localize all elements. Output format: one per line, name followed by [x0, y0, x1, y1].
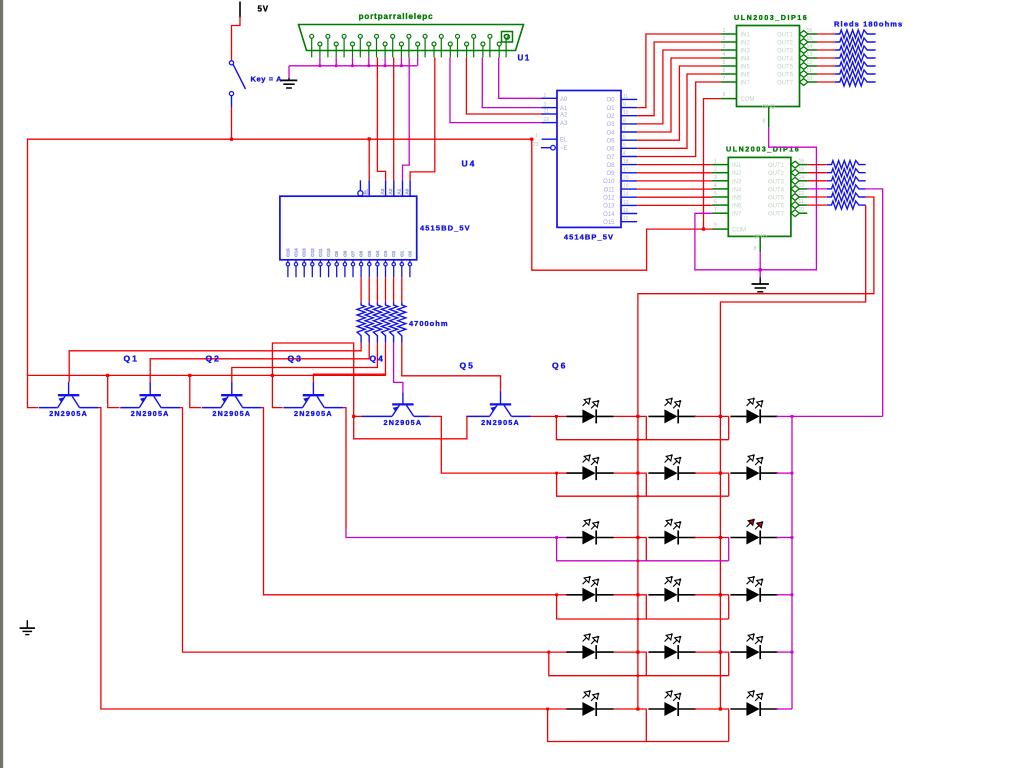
svg-text:4700ohm: 4700ohm: [409, 319, 449, 328]
svg-text:O6: O6: [359, 250, 364, 257]
wire O13 to ULN2 IN6: [637, 204, 712, 206]
IC U2 pin IN6 lead: [721, 73, 737, 75]
svg-text:23: 23: [533, 142, 539, 148]
svg-text:A2: A2: [560, 113, 568, 119]
transistor Q2 2N2905A: [120, 382, 180, 408]
svg-text:7: 7: [623, 127, 626, 133]
junction row4 jog: [555, 593, 558, 596]
svg-text:Q4: Q4: [370, 354, 385, 364]
connector U1 pin 2: [326, 34, 330, 57]
svg-text:OUT2: OUT2: [777, 41, 794, 47]
wire row4 return: [557, 595, 729, 619]
resistor Rled6 180ohm: [835, 70, 876, 78]
LED row2 col2: [648, 454, 695, 480]
svg-text:IN6: IN6: [732, 204, 742, 210]
IC U2 pin OUT3 lead: [808, 49, 817, 51]
resistor Rled4 180ohm: [835, 54, 876, 62]
wire row5 LED3 to magenta bus: [776, 651, 792, 653]
junction row4 colA: [636, 593, 639, 596]
wire row4 feed to LED: [557, 594, 567, 596]
svg-text:10: 10: [623, 110, 629, 116]
IC U3 pin IN3 lead: [713, 180, 729, 182]
wire U4 pin to R3: [376, 277, 378, 302]
IC U4 output pin O6: [359, 260, 362, 277]
IC U2 pin IN2 lead: [721, 41, 737, 43]
IC U4 output pin O1: [400, 260, 403, 277]
wire ULN1 COM net: [704, 99, 722, 230]
svg-text:IN4: IN4: [741, 57, 751, 63]
wire switch to rail: [231, 107, 233, 139]
IC U4 output pin O8: [343, 260, 346, 277]
svg-text:U1: U1: [518, 54, 531, 63]
svg-text:O3: O3: [606, 122, 615, 128]
junction row1 return colA: [637, 439, 639, 441]
IC U3 output bubble OUT6: [791, 202, 799, 209]
svg-text:IN7: IN7: [741, 81, 751, 87]
svg-text:O10: O10: [603, 179, 615, 185]
IC U3 pin OUT6 lead: [799, 204, 807, 206]
svg-text:O14: O14: [294, 248, 299, 257]
svg-text:14: 14: [799, 175, 805, 181]
IC U3 pin IN5 lead: [713, 196, 729, 198]
svg-text:O2: O2: [391, 250, 396, 257]
wire pin14 to ground bus: [319, 57, 321, 65]
wire row2 LED2-LED3: [695, 472, 729, 474]
IC U3 pin OUT1 lead: [799, 164, 807, 166]
svg-text:11: 11: [807, 68, 812, 74]
IC ULN2003 U2 body: [737, 26, 800, 107]
transistor Q3 2N2905A: [202, 382, 262, 408]
svg-text:OUT1: OUT1: [777, 33, 794, 39]
wire pin18 to ground bus: [384, 57, 386, 65]
wire row5 return: [549, 652, 729, 676]
svg-text:4: 4: [714, 183, 717, 189]
resistor Rled2-1 180ohm: [827, 161, 866, 169]
wire pin5 to 4515 A3: [377, 57, 385, 180]
IC U2 pin COM lead: [721, 98, 737, 100]
svg-text:15: 15: [799, 167, 805, 173]
power 5V stub: [239, 2, 241, 18]
IC 4514BP_5V body: [557, 91, 621, 228]
svg-text:4514BP_5V: 4514BP_5V: [564, 233, 614, 242]
svg-text:O11: O11: [318, 248, 323, 257]
IC 4514 pin O4 lead: [621, 131, 637, 133]
svg-text:O0: O0: [606, 98, 615, 104]
svg-text:OUT2: OUT2: [768, 171, 785, 177]
wire U2 OUT6 to resistor: [817, 73, 835, 75]
wire U2 OUT3 to resistor: [817, 49, 835, 51]
IC 4514 pin O5 lead: [621, 139, 637, 141]
IC U2 output bubble OUT5: [800, 63, 808, 70]
resistor Rled2-3 180ohm: [827, 177, 866, 185]
LED row4 col2: [648, 576, 695, 602]
IC 4514 pin O14 lead: [621, 213, 637, 215]
junction row2 colB: [719, 472, 722, 475]
resistor network 4700ohm R3: [373, 302, 381, 342]
svg-text:O8: O8: [342, 250, 347, 257]
svg-text:U4: U4: [462, 159, 477, 169]
svg-text:OUT7: OUT7: [768, 212, 785, 218]
resistor network 4700ohm R6: [398, 302, 406, 342]
svg-text:OUT7: OUT7: [777, 81, 794, 87]
IC U2 pin OUT4 lead: [808, 57, 817, 59]
svg-text:O2: O2: [606, 114, 615, 120]
resistor network 4700ohm R4: [382, 302, 390, 342]
junction row5 jog: [547, 651, 550, 654]
IC U4 output pin O7: [351, 260, 354, 277]
IC U2 pin OUT6 lead: [808, 73, 817, 75]
wire row6 LED2-LED3: [695, 708, 729, 710]
resistor network 4700ohm R5: [390, 302, 398, 342]
IC U4 output pin O2: [392, 260, 395, 277]
svg-text:12: 12: [807, 60, 813, 66]
IC U4 output pin O11: [319, 260, 322, 277]
svg-text:8: 8: [754, 246, 757, 252]
connector U1 pin 16: [351, 42, 355, 57]
svg-text:O1: O1: [399, 250, 404, 257]
IC U4 top pin A1: [402, 180, 404, 196]
wire U3 GND stub magenta: [759, 252, 761, 277]
junction pin16 bus: [351, 65, 354, 68]
connector U1 pin 6: [391, 34, 395, 57]
svg-text:14: 14: [623, 192, 629, 198]
junction COM net: [702, 228, 705, 231]
IC U4 output labels O15-O0: [285, 248, 412, 257]
svg-text:11: 11: [623, 94, 628, 100]
junction pin17 bus: [368, 65, 371, 68]
svg-text:O9: O9: [334, 250, 339, 257]
wire Q4 emitter feed: [272, 375, 282, 407]
svg-text:8: 8: [763, 119, 766, 125]
wire ground bus magenta: [289, 65, 417, 67]
connector U1 portparrallelepc body: [299, 25, 524, 51]
IC U3 pin IN6 lead: [713, 204, 729, 206]
svg-text:8: 8: [623, 118, 626, 124]
LED row5 col2: [648, 633, 695, 659]
wire row2 LED1-LED2: [614, 472, 647, 474]
wire OUT6 to column B: [720, 205, 865, 709]
wire U3 OUT3 to resistor: [807, 180, 827, 182]
svg-text:4: 4: [723, 52, 726, 58]
svg-text:6: 6: [623, 135, 626, 141]
LED row1 col2: [648, 398, 695, 424]
junction row6 jog: [546, 708, 549, 711]
svg-text:O5: O5: [606, 139, 615, 145]
svg-text:OUT6: OUT6: [768, 204, 785, 210]
transistor Q5 2N2905A: [362, 392, 430, 416]
wire R2 to Q2 base: [150, 343, 369, 382]
IC U2 pin IN5 lead: [721, 65, 737, 67]
wire rail drop to 4515: [368, 139, 370, 180]
svg-text:O15: O15: [285, 248, 290, 257]
resistor Rled2 180ohm: [835, 38, 876, 46]
LED row2 col1: [566, 454, 613, 480]
LED row3 col1: [566, 519, 613, 545]
connector U1 pin 25: [497, 42, 501, 57]
wire OUT5 to column A: [638, 197, 874, 709]
IC U3 pin IN4 lead: [713, 188, 729, 190]
junction row5 magenta bus: [791, 651, 794, 654]
connector U1 pin 14: [318, 42, 322, 57]
svg-text:4: 4: [623, 151, 626, 157]
svg-text:O0: O0: [407, 250, 412, 257]
wire row6 feed to LED: [548, 708, 567, 710]
wire pin23 to 4514 A2: [466, 57, 543, 114]
junction pin19 bus: [400, 65, 403, 68]
wire EL net to COM2: [532, 139, 713, 270]
wire U2 OUT2 to resistor: [817, 41, 835, 43]
wire R1 to Q1 base: [69, 343, 361, 382]
svg-text:A0: A0: [560, 97, 568, 103]
wire pin25 to 4514 A0: [499, 57, 543, 98]
svg-text:A2: A2: [388, 188, 393, 194]
svg-text:IN1: IN1: [732, 163, 742, 169]
svg-text:OUT4: OUT4: [768, 187, 785, 193]
resistor Rled5 180ohm: [835, 62, 876, 70]
connector U1 pin 21: [432, 42, 436, 57]
resistor Rled7 180ohm: [835, 78, 876, 86]
svg-text:ULN2003_DIP16: ULN2003_DIP16: [734, 13, 808, 22]
IC U4 output pin O15: [286, 260, 289, 277]
junction rail switch: [230, 138, 233, 141]
IC ULN2003 U3 body: [728, 157, 791, 236]
svg-text:16: 16: [623, 208, 629, 214]
LED row1 col1: [566, 398, 613, 424]
wire row5 LED1-LED2: [614, 651, 647, 653]
connector U1 indicator square: [502, 32, 513, 43]
wire row6 LED3 to magenta bus: [776, 708, 792, 710]
wire Q6 collector to row1: [531, 415, 567, 417]
IC 4514 pin A0 lead: [542, 97, 557, 99]
wire Q4 collector to row3 magenta: [346, 529, 557, 538]
svg-text:O14: O14: [603, 212, 615, 218]
svg-text:A1: A1: [397, 188, 402, 194]
svg-text:O6: O6: [606, 147, 615, 153]
svg-text:O13: O13: [603, 204, 615, 210]
svg-text:3: 3: [714, 175, 717, 181]
wire U4 pin to R5: [393, 277, 395, 302]
wire Q5 Q6 emitter feed riser: [272, 343, 362, 416]
wire U3 OUT2 to resistor: [807, 172, 827, 174]
wire row2 return: [557, 473, 729, 496]
svg-text:2N2905A: 2N2905A: [481, 418, 520, 427]
wire O11 to ULN2 IN4: [637, 188, 712, 190]
svg-text:5: 5: [623, 143, 626, 149]
svg-text:Q2: Q2: [206, 354, 221, 364]
wire OUT4 to LED row1 magenta: [866, 189, 883, 417]
resistor network 4700ohm R2: [365, 302, 373, 342]
IC U2 output bubble OUT2: [800, 39, 808, 46]
wire row3 return: [557, 538, 729, 561]
wire O9 to ULN2 IN2: [637, 172, 712, 174]
svg-text:2N2905A: 2N2905A: [294, 409, 333, 418]
junction Q5 feed: [352, 415, 355, 418]
IC U4 top pin labels: [364, 188, 410, 194]
svg-text:Rleds 180ohms: Rleds 180ohms: [834, 20, 903, 29]
IC U4 output pin O0: [408, 260, 411, 277]
wire bus to ground: [288, 66, 290, 78]
wire Q6 emitter feed: [354, 416, 467, 438]
wire row4 LED3 to magenta bus: [776, 594, 792, 596]
connector U1 pin 4: [358, 34, 362, 57]
junction row5 colA: [636, 651, 639, 654]
junction row1 magenta: [791, 415, 794, 418]
wire U2 OUT5 to resistor: [817, 65, 835, 67]
wire R3 to Q3 base: [232, 343, 378, 382]
junction row2 colA: [636, 472, 639, 475]
IC U2 output bubble OUT6: [800, 71, 808, 78]
resistor Rled2-5 180ohm: [827, 193, 866, 201]
junction rail 4515 pin: [368, 137, 371, 140]
junction row5 return colA: [637, 675, 639, 677]
wire pin21 to 4515 A0: [410, 57, 435, 180]
svg-text:OUT3: OUT3: [768, 179, 785, 185]
svg-text:COM: COM: [741, 97, 755, 103]
svg-text:OUT6: OUT6: [777, 73, 794, 79]
svg-text:6: 6: [723, 68, 726, 74]
wire Q3 collector to row4: [262, 408, 557, 595]
svg-text:O4: O4: [606, 130, 615, 136]
svg-text:OUT4: OUT4: [777, 57, 794, 63]
wire Q5 collector to row2: [429, 416, 556, 473]
svg-text:6: 6: [714, 199, 717, 205]
IC U2 pin IN4 lead: [721, 57, 737, 59]
IC U3 pin IN2 lead: [713, 172, 729, 174]
wire GND net magenta: [695, 127, 817, 270]
junction rail Q4 feed: [271, 374, 274, 377]
svg-text:O3: O3: [383, 250, 388, 257]
junction row4 colB: [719, 593, 722, 596]
svg-text:O7: O7: [351, 250, 356, 257]
svg-text:2N2905A: 2N2905A: [131, 409, 170, 418]
wire R5 to Q5 base magenta: [394, 343, 403, 393]
svg-text:10: 10: [799, 207, 805, 213]
junction row3 colB: [719, 536, 722, 539]
connector U1 pin 20: [416, 42, 420, 57]
IC 4514 pin O2 lead: [621, 115, 637, 117]
IC U4 inhibit pin: [358, 180, 363, 196]
junction row1 jog: [555, 415, 558, 418]
junction row1 colB: [719, 415, 722, 418]
wire U4 pin to R6: [401, 277, 403, 302]
resistor network 4700ohm R1: [357, 302, 365, 342]
wire Q3 emitter feed: [190, 375, 201, 407]
junction row6 colB: [719, 707, 722, 710]
LED row6 col3: [730, 690, 777, 716]
junction row3 jog: [555, 536, 558, 539]
svg-text:Key = A: Key = A: [251, 75, 283, 84]
svg-text:9: 9: [723, 92, 726, 98]
svg-text:9: 9: [714, 223, 717, 229]
IC U4 top pin A2: [393, 180, 395, 196]
svg-text:13: 13: [623, 200, 629, 206]
wire row1 right magenta: [792, 415, 883, 417]
transistor Q4 2N2905A: [283, 382, 343, 408]
IC 4514 pin notE lead: [541, 145, 555, 150]
IC U3 pin GND lead: [759, 236, 761, 252]
junction row4 magenta bus: [791, 593, 794, 596]
svg-text:12: 12: [799, 191, 805, 197]
svg-text:17: 17: [623, 167, 629, 173]
wire row1 return: [556, 416, 728, 439]
wire pin15 to ground bus: [335, 57, 337, 65]
svg-text:13: 13: [807, 52, 813, 58]
svg-text:16: 16: [807, 28, 813, 34]
svg-text:20: 20: [623, 175, 629, 181]
resistor Rled2-2 180ohm: [827, 169, 866, 177]
wire Q2 emitter feed: [108, 375, 120, 407]
IC U2 output bubble OUT7: [800, 79, 808, 86]
wire row6 return: [548, 709, 729, 742]
IC U3 output bubble OUT3: [791, 177, 799, 184]
svg-text:4515BD_5V: 4515BD_5V: [420, 224, 471, 233]
wire magenta LED bus: [791, 416, 793, 709]
IC U4 top pin A3: [385, 180, 387, 196]
IC U3 pin IN7 lead: [713, 212, 729, 214]
IC 4514 pin O3 lead: [621, 123, 637, 125]
left window border: [0, 0, 3, 768]
ground GND2: [752, 278, 769, 292]
IC 4514 pin O8 lead: [621, 164, 637, 166]
IC 4514 pin A3 lead: [542, 122, 557, 124]
IC U4 top pin A0: [409, 180, 411, 196]
connector U1 pin 7: [407, 34, 411, 57]
svg-text:O13: O13: [302, 248, 307, 257]
connector U1 pin 1: [310, 34, 314, 57]
IC U3 pin OUT4 lead: [799, 188, 807, 190]
svg-text:11: 11: [799, 199, 804, 205]
wire row5 LED2 anode drop: [645, 652, 647, 676]
wire U4 pin to R2: [368, 277, 370, 302]
resistor Rled3 180ohm: [835, 46, 876, 54]
wire pin20 drop: [417, 57, 419, 65]
svg-text:OUT5: OUT5: [777, 65, 794, 71]
svg-text:~E: ~E: [560, 146, 568, 152]
junction row3 magenta bus: [791, 536, 794, 539]
wire row4 LED2 anode drop: [645, 595, 647, 619]
IC U4 output pin O3: [384, 260, 387, 277]
resistor Rled2-6 180ohm: [827, 201, 866, 209]
wire row1 LED1-LED2: [614, 415, 647, 417]
junction row6 colA: [636, 707, 639, 710]
IC U3 output bubble OUT1: [791, 161, 799, 168]
svg-text:IN1: IN1: [741, 33, 751, 39]
svg-text:IN6: IN6: [741, 73, 751, 79]
svg-text:18: 18: [623, 159, 629, 165]
svg-text:IN2: IN2: [741, 41, 751, 47]
wire row3 LED2-LED3: [695, 537, 729, 539]
svg-text:1: 1: [714, 159, 717, 165]
svg-text:Q1: Q1: [124, 354, 139, 364]
connector U1 pin 23: [465, 42, 469, 57]
junction rail EL: [530, 138, 533, 141]
wire U3 OUT4 to resistor: [807, 188, 827, 190]
IC U2 pin IN7 lead: [721, 81, 737, 83]
svg-text:7: 7: [714, 207, 717, 213]
svg-text:A1: A1: [560, 106, 568, 112]
svg-text:O12: O12: [603, 196, 615, 202]
wire U3 OUT6 to resistor: [807, 204, 827, 206]
svg-text:19: 19: [623, 184, 629, 190]
wire 5V rail: [28, 139, 532, 375]
svg-text:A3: A3: [560, 121, 568, 127]
junction GND net: [759, 268, 762, 271]
svg-text:O11: O11: [604, 187, 616, 193]
connector U1 pin 9: [439, 34, 443, 57]
junction pin15 bus: [335, 65, 338, 68]
wire O8 to ULN2 IN1: [637, 164, 712, 166]
svg-text:O9: O9: [606, 171, 615, 177]
